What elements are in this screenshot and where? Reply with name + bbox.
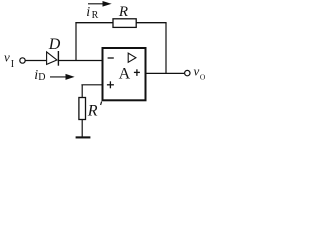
- wire vertical down to R': [81, 85, 83, 98]
- op-amp minus input sign: [108, 57, 114, 59]
- arrow iR current direction: [88, 2, 110, 6]
- resistor R': [79, 98, 86, 120]
- diode D: [47, 51, 59, 66]
- label R' prime mark: [101, 102, 102, 105]
- svg-text:R: R: [87, 103, 98, 120]
- op-amp ideal triangle symbol: [128, 53, 136, 62]
- svg-text:O: O: [200, 73, 206, 82]
- node vO output terminal label: [194, 63, 206, 81]
- wire top left segment: [75, 22, 113, 24]
- resistor R: [113, 19, 136, 28]
- input terminal circle: [20, 58, 25, 63]
- wire diode to op-amp minus input: [59, 60, 103, 62]
- op-amp plus input sign: [107, 81, 114, 88]
- wire R' to ground: [81, 120, 83, 137]
- wire resistor to right corner: [136, 22, 166, 24]
- svg-text:i: i: [86, 5, 90, 20]
- wire junction vertical up to feedback: [75, 22, 77, 60]
- svg-text:R: R: [92, 10, 99, 21]
- op-amp U1 box: [103, 48, 146, 100]
- op-amp output plus sign: [134, 69, 140, 76]
- svg-text:v: v: [194, 63, 200, 78]
- label iD: [34, 68, 45, 83]
- output terminal circle: [185, 70, 190, 75]
- svg-text:D: D: [38, 72, 45, 83]
- wire op-amp output to terminal: [146, 72, 185, 74]
- ground: [76, 136, 91, 138]
- wire op-amp plus input to R': [81, 84, 102, 86]
- node vI input terminal label: [4, 50, 14, 70]
- arrow iD current direction: [50, 75, 73, 80]
- label iR: [86, 5, 98, 21]
- wire feedback vertical down: [165, 23, 167, 74]
- wire input terminal to diode: [25, 60, 46, 62]
- svg-text:A: A: [119, 66, 131, 83]
- svg-text:D: D: [48, 36, 61, 53]
- svg-text:R: R: [118, 4, 128, 20]
- svg-text:v: v: [4, 50, 10, 65]
- svg-text:I: I: [11, 59, 14, 70]
